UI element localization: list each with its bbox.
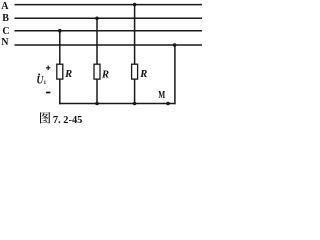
svg-text:1: 1 (44, 80, 47, 86)
svg-text:R: R (139, 69, 147, 80)
svg-text:N: N (1, 37, 9, 48)
svg-text:C: C (2, 26, 9, 37)
svg-text:R: R (64, 69, 72, 80)
svg-text:7. 2-45: 7. 2-45 (53, 114, 83, 126)
svg-text:M: M (158, 90, 165, 101)
svg-text:A: A (1, 1, 9, 12)
svg-text:R: R (101, 69, 109, 80)
svg-text:B: B (2, 13, 9, 24)
